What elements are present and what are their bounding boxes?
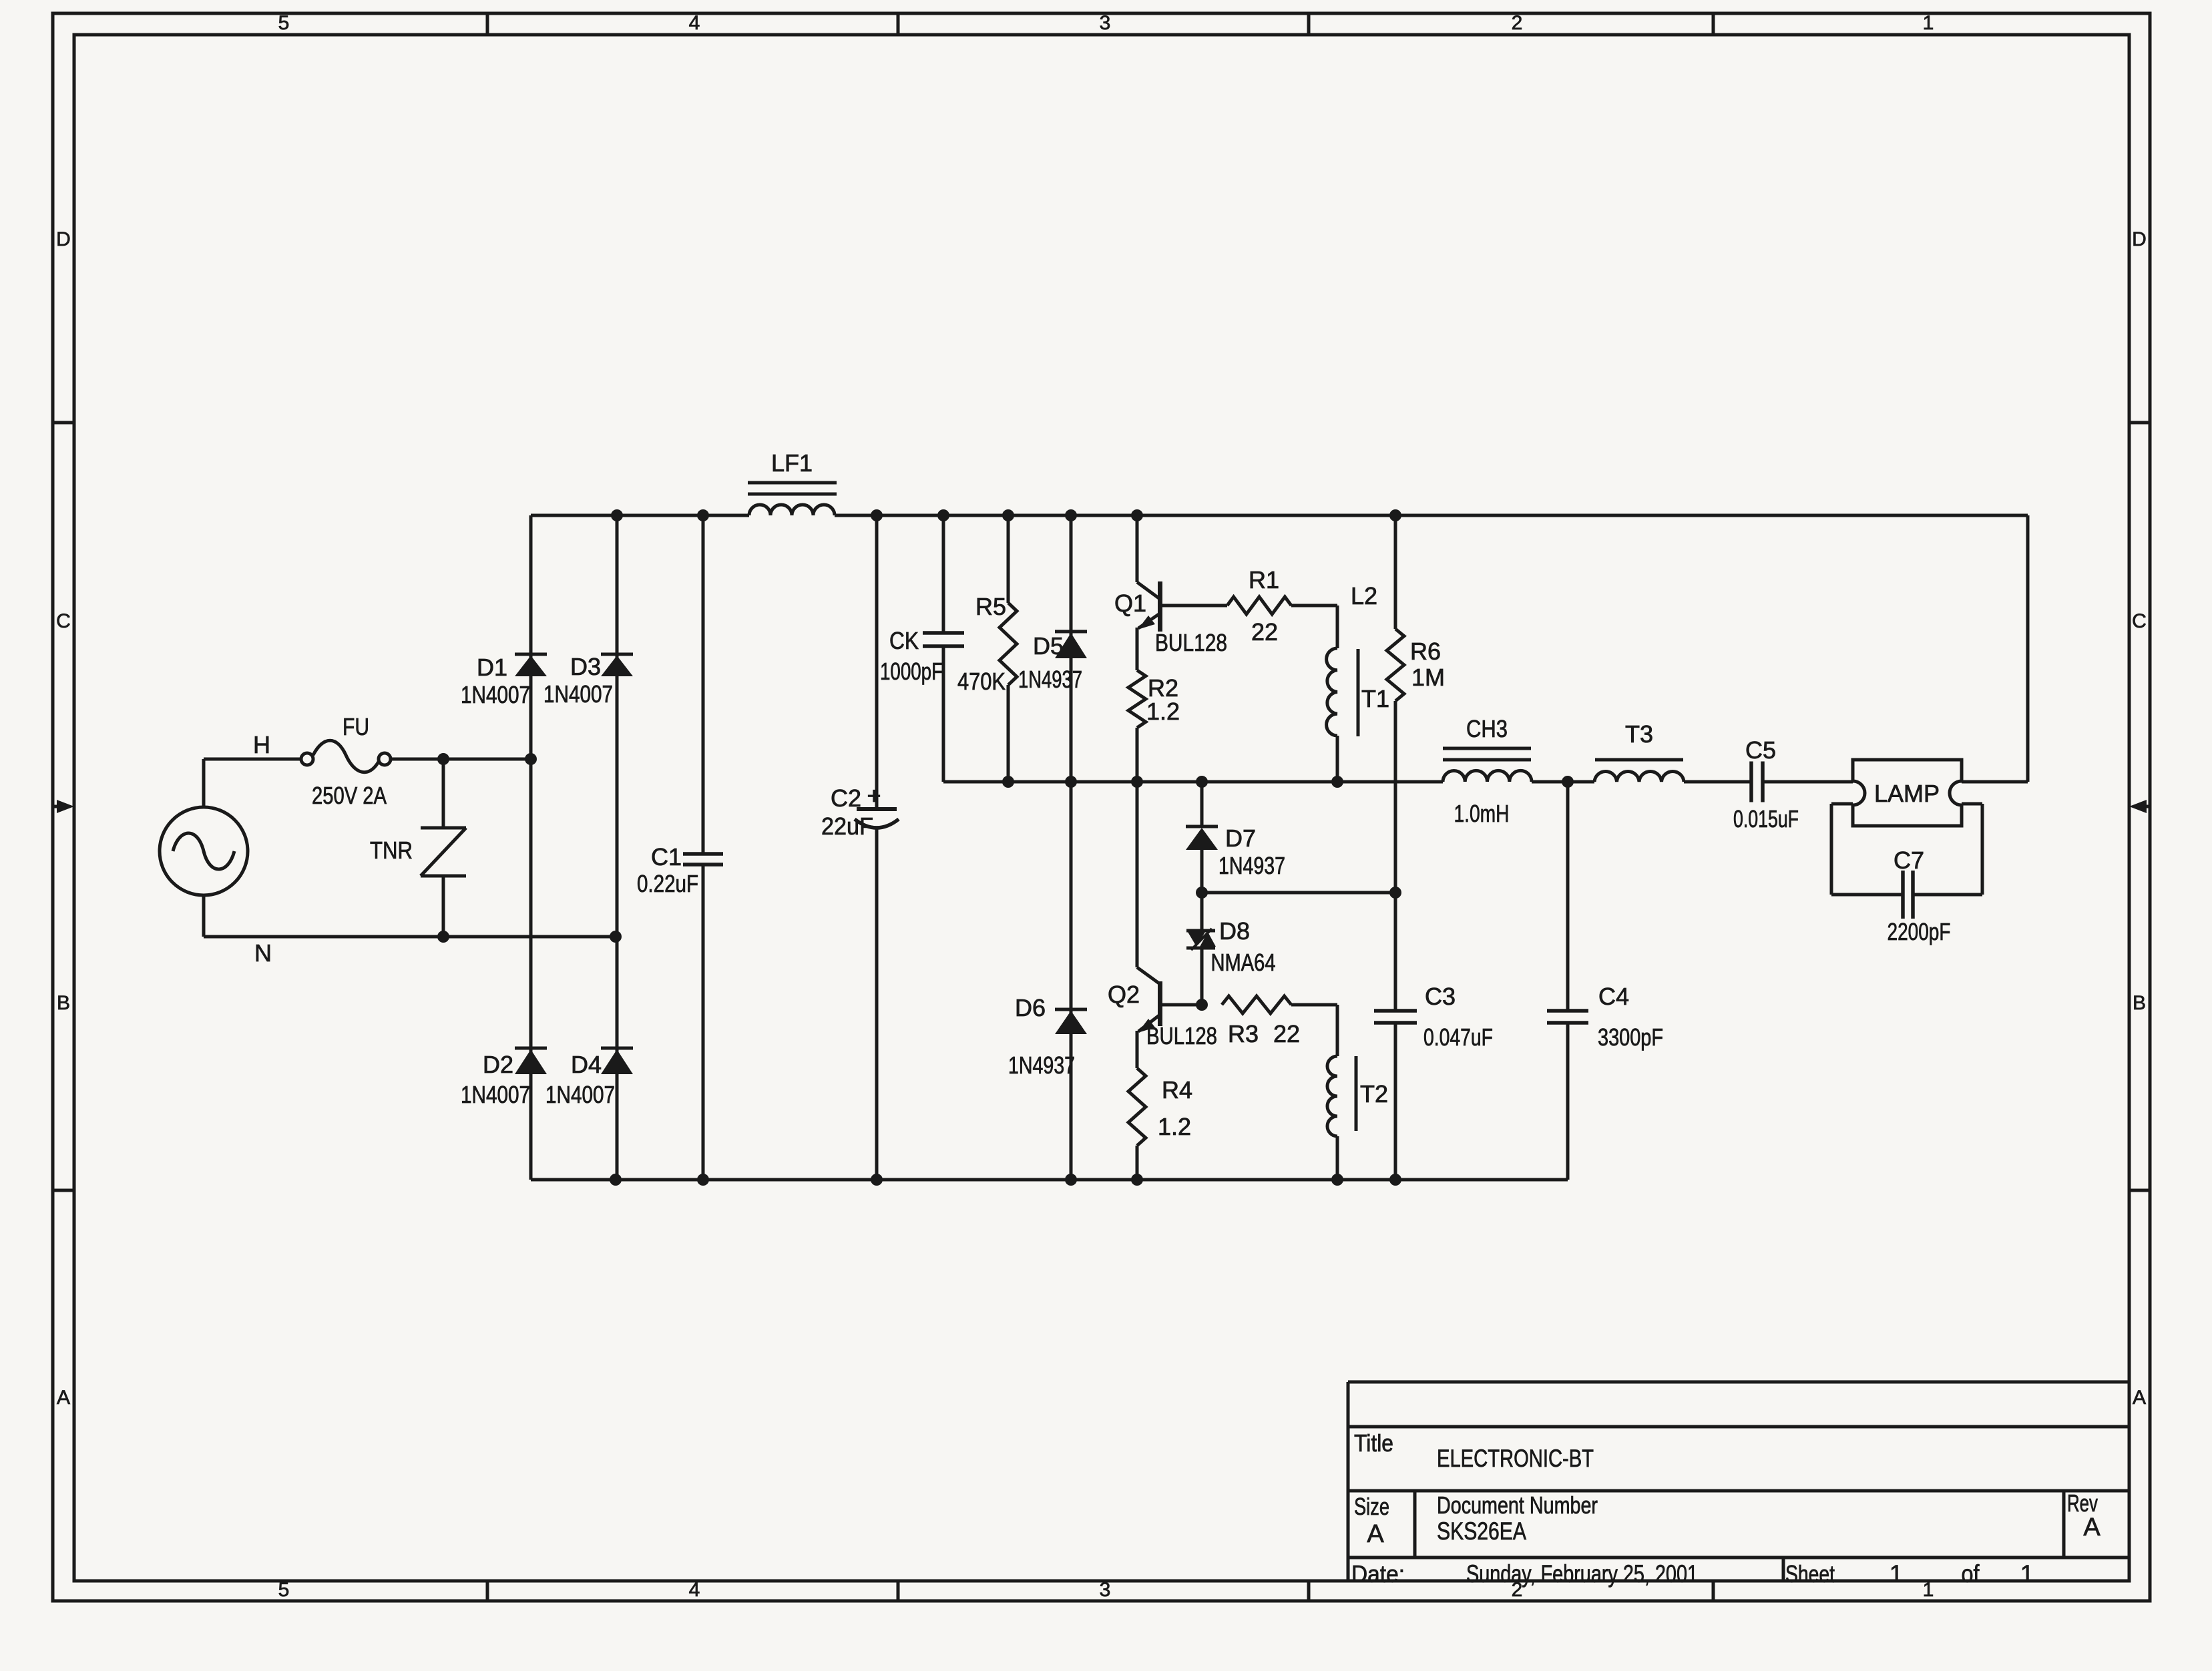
svg-text:Sheet: Sheet (1785, 1560, 1835, 1588)
svg-text:1.2: 1.2 (1158, 1113, 1191, 1140)
svg-text:D7: D7 (1225, 824, 1256, 852)
svg-text:CH3: CH3 (1466, 715, 1508, 742)
svg-text:5: 5 (278, 1579, 290, 1601)
svg-text:Size: Size (1354, 1493, 1389, 1520)
svg-text:D2: D2 (483, 1051, 513, 1078)
svg-text:D: D (2132, 228, 2147, 250)
svg-text:1N4007: 1N4007 (461, 681, 530, 708)
svg-text:CK: CK (889, 627, 919, 654)
svg-text:Q2: Q2 (1108, 981, 1140, 1008)
svg-text:1000pF: 1000pF (880, 658, 943, 685)
svg-text:LF1: LF1 (771, 449, 813, 477)
svg-text:1: 1 (1923, 1579, 1934, 1601)
svg-text:Title: Title (1354, 1429, 1393, 1457)
svg-text:3: 3 (1100, 1579, 1111, 1601)
svg-text:1N4007: 1N4007 (543, 680, 613, 708)
svg-text:3300pF: 3300pF (1598, 1023, 1663, 1051)
svg-text:22: 22 (1273, 1020, 1300, 1047)
svg-text:2: 2 (1512, 12, 1523, 34)
svg-text:1N4937: 1N4937 (1008, 1051, 1075, 1079)
svg-text:1N4007: 1N4007 (545, 1081, 615, 1108)
svg-text:Rev: Rev (2067, 1489, 2098, 1517)
svg-text:D1: D1 (477, 654, 507, 681)
svg-text:R4: R4 (1162, 1076, 1192, 1104)
svg-text:1N4937: 1N4937 (1018, 666, 1082, 693)
svg-text:22uF: 22uF (821, 812, 873, 840)
svg-text:D8: D8 (1219, 917, 1250, 945)
svg-text:2200pF: 2200pF (1888, 918, 1951, 945)
svg-text:C: C (56, 610, 71, 632)
svg-text:Date:: Date: (1351, 1560, 1405, 1588)
svg-text:TNR: TNR (370, 837, 413, 864)
svg-text:C2: C2 (831, 784, 861, 812)
svg-text:T3: T3 (1625, 720, 1653, 748)
svg-text:C: C (2132, 610, 2147, 632)
svg-text:C5: C5 (1745, 736, 1776, 764)
svg-text:1N4937: 1N4937 (1219, 852, 1285, 879)
svg-text:LAMP: LAMP (1874, 780, 1940, 807)
svg-text:0.015uF: 0.015uF (1733, 805, 1799, 832)
svg-text:470K: 470K (957, 668, 1006, 695)
svg-text:0.22uF: 0.22uF (637, 870, 698, 897)
svg-text:4: 4 (689, 12, 700, 34)
svg-text:Sunday, February 25, 2001: Sunday, February 25, 2001 (1466, 1560, 1698, 1588)
svg-text:C1: C1 (651, 843, 682, 871)
svg-text:D: D (56, 228, 71, 250)
svg-text:5: 5 (278, 12, 290, 34)
svg-text:BUL128: BUL128 (1155, 629, 1227, 656)
svg-text:C3: C3 (1425, 983, 1456, 1010)
svg-text:A: A (2083, 1513, 2100, 1541)
svg-text:B: B (2133, 992, 2146, 1014)
svg-text:NMA64: NMA64 (1211, 949, 1276, 976)
svg-text:B: B (57, 992, 70, 1014)
svg-text:ELECTRONIC-BT: ELECTRONIC-BT (1437, 1445, 1594, 1472)
svg-text:3: 3 (1100, 12, 1111, 34)
svg-text:1: 1 (2020, 1560, 2034, 1588)
svg-text:+: + (867, 782, 881, 809)
svg-text:1: 1 (1890, 1560, 1904, 1588)
svg-text:1: 1 (1923, 12, 1934, 34)
svg-text:D3: D3 (570, 653, 601, 680)
svg-text:of: of (1962, 1560, 1980, 1588)
svg-text:N: N (254, 939, 272, 967)
svg-text:0.047uF: 0.047uF (1423, 1023, 1493, 1051)
svg-text:1N4007: 1N4007 (461, 1081, 530, 1108)
svg-text:1.2: 1.2 (1146, 698, 1180, 725)
svg-text:T1: T1 (1361, 685, 1389, 712)
svg-text:L2: L2 (1351, 582, 1377, 610)
svg-text:22: 22 (1251, 618, 1278, 646)
svg-text:BUL128: BUL128 (1146, 1022, 1217, 1049)
svg-text:SKS26EA: SKS26EA (1437, 1517, 1526, 1545)
svg-text:T2: T2 (1360, 1080, 1388, 1108)
svg-text:R6: R6 (1410, 638, 1441, 665)
svg-text:A: A (1367, 1520, 1384, 1548)
svg-text:D5: D5 (1033, 632, 1064, 660)
svg-text:R1: R1 (1249, 566, 1279, 593)
svg-text:1M: 1M (1411, 664, 1445, 691)
svg-text:C4: C4 (1598, 983, 1629, 1010)
svg-text:1.0mH: 1.0mH (1454, 800, 1510, 827)
svg-text:4: 4 (689, 1579, 700, 1601)
svg-text:FU: FU (343, 713, 369, 740)
svg-text:250V 2A: 250V 2A (312, 782, 387, 809)
svg-text:D6: D6 (1015, 994, 1046, 1021)
svg-text:A: A (2133, 1387, 2146, 1409)
svg-text:H: H (253, 731, 270, 758)
svg-text:D4: D4 (571, 1051, 602, 1078)
svg-text:R5: R5 (975, 593, 1006, 620)
svg-text:R3: R3 (1228, 1020, 1259, 1047)
svg-text:A: A (57, 1387, 70, 1409)
svg-text:Document Number: Document Number (1437, 1491, 1598, 1519)
svg-text:C7: C7 (1894, 847, 1924, 874)
svg-text:Q1: Q1 (1114, 589, 1146, 617)
